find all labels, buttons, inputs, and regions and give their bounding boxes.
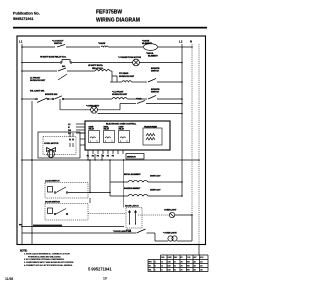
svg-text:* BAKE: * BAKE	[98, 42, 106, 45]
svg-text:SWITCH: SWITCH	[54, 43, 63, 45]
svg-text:SURFACE UNIT: SURFACE UNIT	[112, 93, 128, 96]
svg-text:FEF375BW: FEF375BW	[96, 10, 122, 16]
svg-text:N: N	[190, 41, 192, 44]
svg-text:LOCK SWITCH: LOCK SWITCH	[45, 181, 60, 183]
svg-text:REL: REL	[149, 270, 152, 272]
svg-text:11: 11	[161, 270, 163, 272]
svg-text:NOTE:: NOTE:	[20, 250, 28, 253]
svg-text:9-98: 9-98	[168, 270, 171, 272]
svg-text:SURFACE UNIT: SURFACE UNIT	[119, 75, 135, 78]
svg-text:5 995271941: 5 995271941	[88, 267, 112, 272]
svg-text:* DOOR LIGHT SW.: * DOOR LIGHT SW.	[113, 231, 132, 233]
svg-text:1. DOOR LATCH SHOWN IN NL. CON: 1. DOOR LATCH SHOWN IN NL. CONNECT LIT I…	[24, 253, 70, 256]
svg-text:03: 03	[174, 270, 176, 272]
svg-text:SURFACE UNIT: SURFACE UNIT	[30, 79, 46, 82]
svg-text:P3: P3	[97, 156, 99, 158]
svg-text:114: 114	[200, 261, 203, 264]
svg-text:POSITION CLOSED AND UNLOCKED.: POSITION CLOSED AND UNLOCKED.	[28, 255, 61, 258]
svg-text:BAKE ELEMENT: BAKE ELEMENT	[124, 187, 141, 190]
svg-text:WIRING DIAGRAM: WIRING DIAGRAM	[96, 18, 140, 24]
svg-text:DOOR LATCH: DOOR LATCH	[125, 205, 139, 208]
svg-text:2. W / O DENOTES OPTIONAL COM: 2. W / O DENOTES OPTIONAL COMPONENTS.	[24, 258, 65, 261]
svg-text:P6: P6	[112, 156, 114, 158]
svg-text:6-98: 6-98	[168, 266, 171, 268]
svg-text:121: 121	[200, 266, 203, 268]
svg-text:INFINITE SW.: INFINITE SW.	[45, 94, 58, 96]
svg-text:* CONVECTION MOTOR: * CONVECTION MOTOR	[118, 57, 141, 59]
svg-text:ELECTRONIC OVEN CONTROL: ELECTRONIC OVEN CONTROL	[106, 123, 137, 125]
svg-text:RELAY: RELAY	[89, 128, 95, 131]
svg-text:3-98: 3-98	[168, 262, 171, 264]
svg-text:Publication No.: Publication No.	[13, 12, 40, 16]
svg-text:* OVEN VENT: * OVEN VENT	[86, 105, 100, 107]
svg-text:2585W 240V: 2585W 240V	[150, 189, 161, 192]
svg-text:10: 10	[161, 266, 163, 268]
svg-text:BROIL ELEMENT: BROIL ELEMENT	[124, 174, 141, 176]
svg-text:P2: P2	[92, 156, 94, 158]
svg-text:12: 12	[161, 262, 163, 264]
svg-text:3. COMPONENTS WITH * ARE SHOWN: 3. COMPONENTS WITH * ARE SHOWN IN OFF PO…	[24, 261, 74, 264]
svg-text:130: 130	[200, 270, 203, 272]
svg-text:OVEN LIGHT: OVEN LIGHT	[164, 210, 177, 212]
svg-text:* TOD: * TOD	[136, 99, 142, 101]
svg-text:11/98: 11/98	[5, 277, 13, 281]
svg-text:SWITCH: SWITCH	[151, 71, 160, 73]
svg-text:RELAY: RELAY	[119, 128, 125, 131]
svg-text:RELAY: RELAY	[104, 128, 110, 131]
svg-text:01: 01	[174, 262, 176, 264]
svg-text:ELEMENT: ELEMENT	[142, 43, 153, 45]
svg-text:DOOR SWITCH: DOOR SWITCH	[45, 202, 60, 204]
svg-text:RELAY N.O.: RELAY N.O.	[92, 67, 104, 70]
svg-text:02: 02	[174, 266, 176, 268]
svg-text:4. CONNECT ALT. N.O. BY WT. SP: 4. CONNECT ALT. N.O. BY WT. SPECS OF ALL…	[24, 264, 73, 267]
svg-text:RT. REAR: RT. REAR	[119, 72, 129, 75]
svg-text:CONV. MOTOR: CONV. MOTOR	[44, 143, 59, 145]
svg-text:P5: P5	[107, 156, 109, 158]
svg-text:* OVEN LIGHT: * OVEN LIGHT	[163, 233, 177, 235]
svg-text:SWITCH: SWITCH	[151, 91, 160, 93]
svg-text:3000W 240V: 3000W 240V	[150, 175, 161, 178]
svg-text:10: 10	[103, 277, 107, 281]
svg-text:SENSOR: SENSOR	[127, 157, 136, 159]
svg-text:P.B. LIGHT SW.: P.B. LIGHT SW.	[30, 91, 45, 93]
svg-text:HI WATT BAKE RELAY N.O.: HI WATT BAKE RELAY N.O.	[40, 56, 67, 59]
svg-text:HI WATT BROIL: HI WATT BROIL	[88, 64, 104, 67]
svg-text:5995271941: 5995271941	[13, 17, 34, 21]
svg-text:ELEMENT: ELEMENT	[148, 55, 159, 57]
